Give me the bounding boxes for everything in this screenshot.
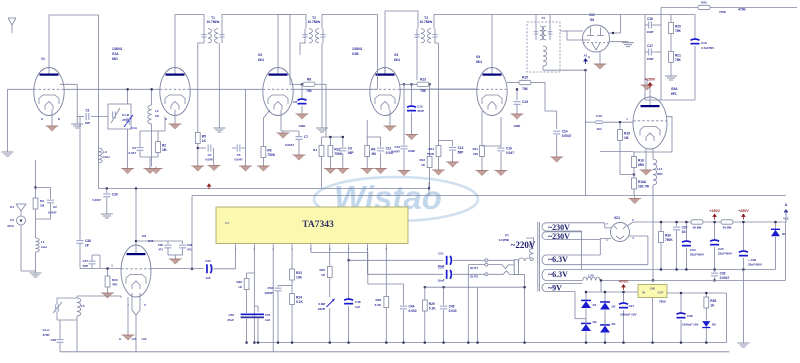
svg-text:L5: L5 xyxy=(81,304,85,308)
svg-text:R22: R22 xyxy=(701,1,707,5)
svg-text:D6: D6 xyxy=(712,323,716,327)
svg-text:C5: C5 xyxy=(132,146,136,150)
svg-text:1000uF 16V: 1000uF 16V xyxy=(620,313,637,317)
svg-text:C14: C14 xyxy=(562,130,568,134)
svg-text:10.7MHz: 10.7MHz xyxy=(308,20,321,24)
svg-text:G2: G2 xyxy=(258,53,262,57)
svg-text:1M: 1M xyxy=(162,148,167,152)
svg-text:0.0047: 0.0047 xyxy=(48,211,57,215)
svg-text:1uF: 1uF xyxy=(205,276,211,280)
svg-text:GND: GND xyxy=(650,288,656,291)
svg-text:C19: C19 xyxy=(596,114,602,118)
svg-text:471: 471 xyxy=(187,248,192,252)
svg-text:6K4: 6K4 xyxy=(258,58,264,62)
svg-text:6K4: 6K4 xyxy=(394,58,400,62)
svg-text:0.033: 0.033 xyxy=(449,309,457,313)
svg-text:10.7MHz: 10.7MHz xyxy=(420,20,433,24)
svg-text:R12: R12 xyxy=(419,158,425,162)
svg-text:D1: D1 xyxy=(593,303,597,307)
svg-text:2R4: 2R4 xyxy=(657,172,663,176)
svg-text:10uF: 10uF xyxy=(437,279,444,283)
svg-text:1K: 1K xyxy=(710,304,715,308)
svg-text:1/26N1: 1/26N1 xyxy=(112,47,123,51)
svg-text:220R: 220R xyxy=(318,307,326,311)
svg-text:C16: C16 xyxy=(647,17,653,21)
svg-text:C35: C35 xyxy=(718,247,724,251)
svg-text:R13: R13 xyxy=(420,77,426,81)
svg-text:C37: C37 xyxy=(82,259,88,263)
svg-text:OUT1: OUT1 xyxy=(470,266,478,270)
svg-text:D4: D4 xyxy=(612,322,616,326)
svg-text:G3: G3 xyxy=(394,53,398,57)
svg-text:C52: C52 xyxy=(267,286,273,290)
svg-text:GND: GND xyxy=(408,149,416,153)
svg-text:IN: IN xyxy=(642,291,645,295)
svg-text:C13: C13 xyxy=(458,146,464,150)
svg-text:P1: P1 xyxy=(10,218,14,222)
svg-text:OUT: OUT xyxy=(658,291,664,295)
svg-text:A: A xyxy=(785,203,788,207)
svg-text:G1B: G1B xyxy=(352,52,359,56)
svg-text:10P: 10P xyxy=(85,121,90,125)
svg-text:C30: C30 xyxy=(112,192,118,196)
svg-text:6R8: 6R8 xyxy=(638,163,644,167)
svg-text:C7: C7 xyxy=(304,135,308,139)
svg-text:R15: R15 xyxy=(522,76,528,80)
svg-text:6N1: 6N1 xyxy=(112,57,118,61)
svg-text:0.0047: 0.0047 xyxy=(205,158,214,162)
svg-text:G8: G8 xyxy=(142,234,146,238)
svg-text:C5: C5 xyxy=(237,153,241,157)
svg-text:L03: L03 xyxy=(142,337,147,341)
svg-text:+250V: +250V xyxy=(738,209,749,213)
svg-text:6P1: 6P1 xyxy=(671,92,677,96)
svg-text:22uF450V: 22uF450V xyxy=(718,252,732,256)
svg-text:0.033: 0.033 xyxy=(409,309,417,313)
svg-text:C1-B: C1-B xyxy=(122,113,130,117)
svg-text:D3: D3 xyxy=(593,320,597,324)
svg-text:T4: T4 xyxy=(541,16,545,20)
svg-text:C38: C38 xyxy=(85,239,91,243)
svg-text:6Z4: 6Z4 xyxy=(614,216,620,220)
svg-text:C15: C15 xyxy=(522,100,528,104)
svg-text:10K: 10K xyxy=(296,276,303,280)
svg-text:C21: C21 xyxy=(438,252,444,256)
svg-text:C34: C34 xyxy=(690,248,696,252)
svg-text:R26: R26 xyxy=(236,280,242,284)
svg-text:RCA: RCA xyxy=(8,224,15,228)
svg-text:R9: R9 xyxy=(371,148,375,152)
svg-text:L1: L1 xyxy=(41,240,45,244)
svg-text:C4: C4 xyxy=(208,153,212,157)
svg-text:R16: R16 xyxy=(638,159,644,163)
svg-text:C45: C45 xyxy=(449,305,455,309)
svg-text:0.047: 0.047 xyxy=(506,151,514,155)
svg-text:R28: R28 xyxy=(375,298,381,302)
svg-text:D2: D2 xyxy=(612,305,616,309)
svg-text:+260V: +260V xyxy=(709,209,720,213)
svg-text:~230V: ~230V xyxy=(548,232,570,241)
svg-text:C36: C36 xyxy=(187,243,193,247)
svg-text:R11: R11 xyxy=(473,147,479,151)
svg-text:C48: C48 xyxy=(355,300,361,304)
svg-text:1M: 1M xyxy=(371,152,376,156)
svg-text:C18: C18 xyxy=(701,41,707,45)
svg-text:56P: 56P xyxy=(348,151,355,155)
svg-text:~9V: ~9V xyxy=(548,284,562,293)
svg-text:750K: 750K xyxy=(665,238,673,242)
svg-text:C1-C: C1-C xyxy=(42,328,50,332)
svg-text:L01: L01 xyxy=(132,337,137,341)
svg-text:75K: 75K xyxy=(420,89,427,93)
svg-text:C17: C17 xyxy=(647,44,653,48)
svg-text:1K: 1K xyxy=(202,139,207,143)
svg-text:750K: 750K xyxy=(719,10,727,14)
svg-text:C39: C39 xyxy=(50,338,56,342)
svg-text:C9: C9 xyxy=(348,147,352,151)
svg-text:104: 104 xyxy=(596,127,601,131)
svg-text:L2: L2 xyxy=(155,109,159,113)
svg-text:470K: 470K xyxy=(738,8,746,12)
svg-text:C1: C1 xyxy=(85,109,89,113)
svg-text:1000P: 1000P xyxy=(264,291,273,295)
svg-text:R18: R18 xyxy=(624,132,630,136)
svg-text:GND: GND xyxy=(299,124,307,128)
svg-text:OUT2: OUT2 xyxy=(470,275,478,279)
svg-text:R35: R35 xyxy=(710,299,716,303)
svg-text:1M: 1M xyxy=(40,204,45,208)
svg-text:50P: 50P xyxy=(83,264,88,268)
svg-text:0.0047: 0.0047 xyxy=(391,150,400,154)
svg-text:~220V: ~220V xyxy=(511,240,536,250)
svg-text:750K: 750K xyxy=(427,152,435,156)
svg-text:L20: L20 xyxy=(588,274,594,278)
svg-text:230.7W: 230.7W xyxy=(638,185,649,189)
svg-text:R21: R21 xyxy=(675,54,681,58)
svg-text:7809: 7809 xyxy=(659,300,666,304)
svg-text:R14: R14 xyxy=(428,147,434,151)
svg-text:~230V: ~230V xyxy=(548,223,570,232)
svg-text:470P: 470P xyxy=(417,109,424,113)
svg-text:1uF: 1uF xyxy=(355,305,361,309)
svg-text:GND: GND xyxy=(514,124,522,128)
svg-text:1uH: 1uH xyxy=(41,245,47,249)
svg-text:~6.3V: ~6.3V xyxy=(548,270,568,279)
svg-text:0.0047: 0.0047 xyxy=(720,276,730,280)
svg-text:K1: K1 xyxy=(10,205,14,209)
svg-text:+ C36: + C36 xyxy=(748,258,756,262)
svg-text:R24: R24 xyxy=(296,296,302,300)
svg-text:6K4: 6K4 xyxy=(476,60,482,64)
svg-text:R30: R30 xyxy=(112,278,118,282)
svg-text:R6: R6 xyxy=(267,149,271,153)
svg-text:56.8W: 56.8W xyxy=(693,226,702,230)
svg-text:7mH: 7mH xyxy=(103,155,110,159)
svg-text:V1: V1 xyxy=(41,57,45,61)
svg-text:L14: L14 xyxy=(657,167,663,171)
svg-text:750K: 750K xyxy=(334,152,342,156)
svg-text:U1: U1 xyxy=(225,221,229,225)
svg-text:G6: G6 xyxy=(590,18,594,22)
svg-text:470P: 470P xyxy=(42,333,49,337)
svg-text:R8: R8 xyxy=(307,77,311,81)
svg-text:75K: 75K xyxy=(675,58,682,62)
svg-text:47K: 47K xyxy=(112,283,118,287)
svg-text:C50: C50 xyxy=(228,313,234,317)
svg-text:0.047: 0.047 xyxy=(128,151,136,155)
svg-text:1M: 1M xyxy=(624,136,629,140)
svg-text:0.0047: 0.0047 xyxy=(92,198,101,202)
svg-text:R30: R30 xyxy=(665,234,671,238)
svg-text:56.8W: 56.8W xyxy=(723,226,732,230)
svg-text:C12: C12 xyxy=(394,145,400,149)
svg-text:L3: L3 xyxy=(103,150,107,154)
svg-text:56P: 56P xyxy=(458,150,465,154)
svg-text:G5A: G5A xyxy=(671,87,678,91)
svg-text:C1A: C1A xyxy=(131,126,138,130)
svg-text:R2: R2 xyxy=(162,144,166,148)
svg-text:75K: 75K xyxy=(522,87,529,91)
svg-text:471: 471 xyxy=(158,248,163,252)
svg-text:10.7MHz: 10.7MHz xyxy=(207,20,220,24)
svg-text:0-0(PW): 0-0(PW) xyxy=(499,238,509,242)
svg-text:3.3K: 3.3K xyxy=(375,303,382,307)
svg-text:C10: C10 xyxy=(506,147,512,151)
svg-text:22uF450V: 22uF450V xyxy=(690,253,704,257)
svg-text:1uF: 1uF xyxy=(265,318,271,322)
svg-text:C8: C8 xyxy=(293,100,297,104)
svg-text:C51: C51 xyxy=(265,313,271,317)
svg-text:G4: G4 xyxy=(476,55,480,59)
svg-text:R5: R5 xyxy=(202,135,206,139)
svg-text:~6.3V: ~6.3V xyxy=(548,255,568,264)
svg-text:1000uF 16V: 1000uF 16V xyxy=(682,323,699,327)
svg-text:4.7uF50V: 4.7uF50V xyxy=(701,46,714,50)
svg-text:R3: R3 xyxy=(40,199,44,203)
svg-text:5.1K: 5.1K xyxy=(429,307,436,311)
svg-text:0.0047: 0.0047 xyxy=(234,158,243,162)
svg-text:+250V: +250V xyxy=(645,78,656,82)
svg-text:0.0047: 0.0047 xyxy=(285,143,295,147)
svg-text:100P: 100P xyxy=(646,57,653,61)
svg-text:150: 150 xyxy=(473,152,478,156)
svg-text:5.1K: 5.1K xyxy=(296,300,303,304)
svg-text:C35: C35 xyxy=(158,243,164,247)
svg-text:750K: 750K xyxy=(267,153,275,157)
svg-text:R4: R4 xyxy=(313,148,317,152)
svg-text:+9VDC: +9VDC xyxy=(618,280,629,284)
svg-text:C37: C37 xyxy=(629,304,635,308)
svg-text:6.8M: 6.8M xyxy=(318,302,325,306)
svg-text:1/26N1: 1/26N1 xyxy=(352,47,363,51)
svg-text:R25: R25 xyxy=(319,268,325,272)
svg-text:C20: C20 xyxy=(205,259,211,263)
svg-text:R16A: R16A xyxy=(638,180,647,184)
svg-text:R20: R20 xyxy=(675,25,681,29)
svg-text:G1A: G1A xyxy=(112,52,119,56)
svg-text:C39: C39 xyxy=(720,272,726,276)
svg-text:C2: C2 xyxy=(53,205,57,209)
svg-text:PT: PT xyxy=(505,234,509,238)
svg-text:C44: C44 xyxy=(409,305,415,309)
svg-text:R23: R23 xyxy=(296,271,302,275)
svg-text:C38: C38 xyxy=(687,314,693,318)
svg-text:100P: 100P xyxy=(646,30,653,34)
svg-text:6X2: 6X2 xyxy=(589,13,595,17)
svg-text:6U1: 6U1 xyxy=(148,239,154,243)
svg-text:C22: C22 xyxy=(438,266,444,270)
svg-text:R29: R29 xyxy=(429,302,435,306)
svg-text:75K: 75K xyxy=(675,29,682,33)
svg-text:22uF450V: 22uF450V xyxy=(748,263,762,267)
svg-text:0.0047: 0.0047 xyxy=(562,134,572,138)
svg-text:C16: C16 xyxy=(417,105,423,109)
svg-text:TA7343: TA7343 xyxy=(302,220,334,230)
svg-text:47uF: 47uF xyxy=(227,318,234,322)
